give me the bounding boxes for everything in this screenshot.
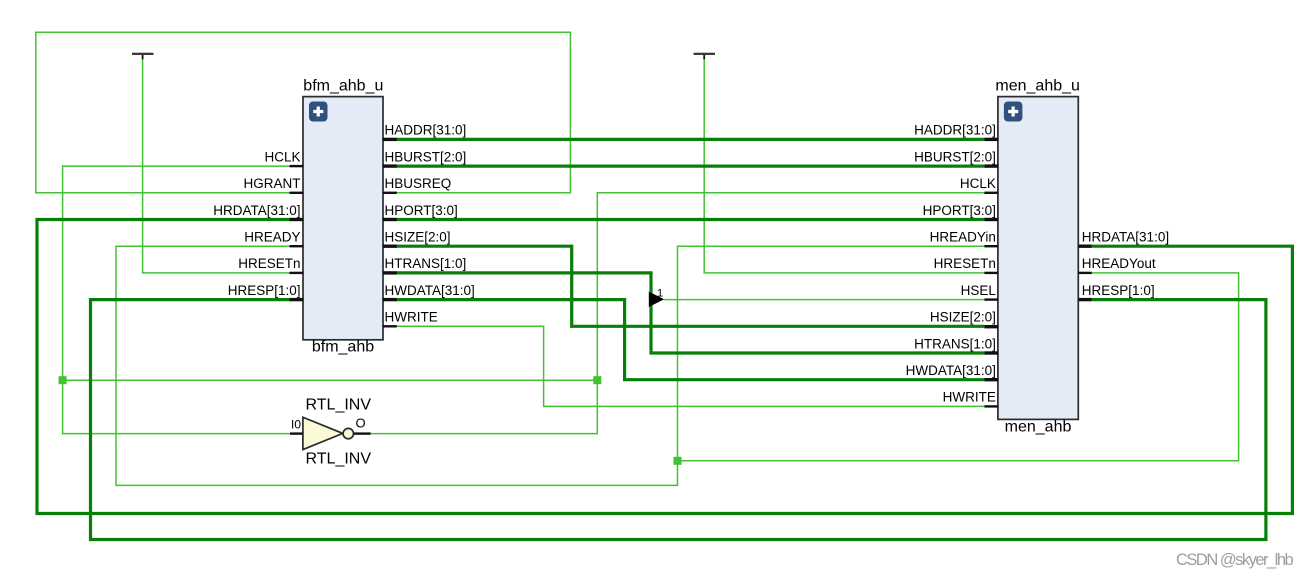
port terminal T1 stub bbox=[142, 55, 144, 59]
bus HRESP loop bbox=[91, 300, 1266, 540]
pin stub men HSIZE[2:0] bbox=[984, 325, 998, 328]
pin stub men HTRANS[1:0] bbox=[984, 351, 998, 354]
port terminal T2 stub bbox=[703, 55, 705, 59]
svg-text:HWDATA[31:0]: HWDATA[31:0] bbox=[906, 363, 996, 378]
wire inverter output to men HCLK bbox=[370, 193, 984, 434]
block bfm_ahb_u bbox=[303, 97, 383, 340]
wire HREADYout loop bbox=[678, 273, 1239, 461]
block men_ahb_u bbox=[998, 97, 1078, 420]
svg-text:HADDR[31:0]: HADDR[31:0] bbox=[914, 123, 996, 138]
pin stub bfm HTRANS[1:0] bbox=[383, 271, 397, 274]
pin stub inverter O bbox=[354, 432, 371, 434]
wire J1-J2 horizontal bbox=[63, 379, 598, 381]
svg-text:HREADYin: HREADYin bbox=[930, 230, 996, 245]
svg-text:HTRANS[1:0]: HTRANS[1:0] bbox=[385, 256, 467, 271]
pin stub bfm HRDATA[31:0] bbox=[290, 218, 304, 221]
bus HADDR bbox=[397, 138, 985, 141]
svg-text:HBUSREQ: HBUSREQ bbox=[385, 176, 452, 191]
svg-text:HSEL: HSEL bbox=[961, 283, 997, 298]
svg-text:HADDR[31:0]: HADDR[31:0] bbox=[385, 123, 467, 138]
svg-text:HBURST[2:0]: HBURST[2:0] bbox=[914, 149, 996, 164]
svg-text:HRESETn: HRESETn bbox=[934, 256, 996, 271]
expand icon men bbox=[1004, 102, 1023, 122]
bus HBURST bbox=[397, 165, 985, 168]
port terminal T1 bar bbox=[132, 53, 154, 55]
pin stub bfm HCLK bbox=[290, 165, 304, 167]
pin stub men HRESP[1:0] bbox=[1078, 298, 1092, 301]
pin stub men HBURST[2:0] bbox=[984, 164, 998, 167]
svg-text:HREADYout: HREADYout bbox=[1082, 256, 1156, 271]
const driver arrow for HSEL bbox=[649, 292, 664, 307]
pin stub men HREADYin bbox=[984, 245, 998, 247]
pin stub bfm HBUSREQ bbox=[383, 192, 397, 194]
pin stub bfm HWRITE bbox=[383, 325, 397, 327]
pin stub bfm HBURST[2:0] bbox=[383, 164, 397, 167]
bus HSIZE bbox=[397, 246, 985, 326]
svg-text:HWDATA[31:0]: HWDATA[31:0] bbox=[385, 283, 475, 298]
wire bfm HCLK to inverter input bbox=[63, 166, 291, 434]
svg-text:bfm_ahb: bfm_ahb bbox=[312, 338, 374, 355]
svg-text:HRESP[1:0]: HRESP[1:0] bbox=[1082, 283, 1155, 298]
inverter U1 RTL_INV triangle bbox=[303, 417, 343, 449]
wire HREADY net bbox=[116, 246, 984, 485]
svg-text:HWRITE: HWRITE bbox=[943, 390, 996, 405]
svg-text:HWRITE: HWRITE bbox=[385, 310, 438, 325]
pin stub bfm HREADY bbox=[290, 245, 304, 247]
svg-text:HRESETn: HRESETn bbox=[238, 256, 300, 271]
pin stub men HCLK bbox=[984, 192, 998, 194]
svg-text:HGRANT: HGRANT bbox=[244, 176, 301, 191]
bus HWDATA bbox=[397, 300, 985, 380]
pin stub men HADDR[31:0] bbox=[984, 138, 998, 141]
svg-text:HSIZE[2:0]: HSIZE[2:0] bbox=[385, 230, 451, 245]
pin stub men HRDATA[31:0] bbox=[1078, 245, 1092, 248]
wire HSEL from const 1 bbox=[664, 299, 984, 301]
pin stub men HWDATA[31:0] bbox=[984, 378, 998, 381]
svg-text:HPORT[3:0]: HPORT[3:0] bbox=[923, 203, 996, 218]
wire T1 to bfm HRESETn bbox=[143, 59, 290, 273]
svg-text:HBURST[2:0]: HBURST[2:0] bbox=[385, 149, 467, 164]
svg-text:1: 1 bbox=[657, 287, 663, 299]
pin stub bfm HADDR[31:0] bbox=[383, 138, 397, 141]
svg-text:HRDATA[31:0]: HRDATA[31:0] bbox=[213, 203, 300, 218]
svg-text:O: O bbox=[356, 416, 366, 431]
pin stub bfm HPORT[3:0] bbox=[383, 218, 397, 221]
svg-text:HRESP[1:0]: HRESP[1:0] bbox=[228, 283, 301, 298]
bus HRDATA loop bbox=[37, 220, 1292, 514]
svg-text:HREADY: HREADY bbox=[244, 230, 300, 245]
svg-text:HCLK: HCLK bbox=[264, 149, 300, 164]
bus HPORT bbox=[397, 218, 985, 221]
svg-text:RTL_INV: RTL_INV bbox=[306, 397, 372, 414]
pin stub men HPORT[3:0] bbox=[984, 218, 998, 221]
wire HWRITE bbox=[397, 326, 985, 406]
pin stub men HRESETn bbox=[984, 272, 998, 274]
wire HBUSREQ-HGRANT top loop bbox=[36, 32, 571, 193]
svg-text:RTL_INV: RTL_INV bbox=[306, 451, 372, 468]
svg-text:CSDN @skyer_lhb: CSDN @skyer_lhb bbox=[1176, 551, 1294, 569]
svg-text:men_ahb_u: men_ahb_u bbox=[995, 77, 1080, 94]
wire T2 to men HRESETn bbox=[704, 59, 984, 273]
svg-text:men_ahb: men_ahb bbox=[1005, 418, 1072, 435]
svg-text:HCLK: HCLK bbox=[960, 176, 996, 191]
pin stub bfm HWDATA[31:0] bbox=[383, 298, 397, 301]
bus HTRANS bbox=[397, 273, 985, 353]
junction J3 bbox=[674, 457, 682, 465]
pin stub bfm HRESP[1:0] bbox=[290, 298, 304, 301]
pin stub bfm HSIZE[2:0] bbox=[383, 245, 397, 248]
pin stub inverter I0 bbox=[290, 432, 303, 434]
svg-text:HTRANS[1:0]: HTRANS[1:0] bbox=[914, 336, 996, 351]
svg-text:HRDATA[31:0]: HRDATA[31:0] bbox=[1082, 230, 1169, 245]
svg-text:HPORT[3:0]: HPORT[3:0] bbox=[385, 203, 458, 218]
pin stub bfm HGRANT bbox=[290, 192, 304, 194]
svg-text:HSIZE[2:0]: HSIZE[2:0] bbox=[930, 310, 996, 325]
svg-text:I0: I0 bbox=[291, 418, 301, 432]
inverter U1 bubble bbox=[343, 428, 353, 438]
pin stub bfm HRESETn bbox=[290, 272, 304, 274]
pin stub men HWRITE bbox=[984, 405, 998, 407]
junction J2 bbox=[593, 376, 601, 384]
expand icon bfm bbox=[309, 102, 328, 122]
junction J1 bbox=[59, 376, 67, 384]
svg-text:bfm_ahb_u: bfm_ahb_u bbox=[303, 77, 383, 94]
port terminal T2 bar bbox=[694, 53, 716, 55]
pin stub men HREADYout bbox=[1078, 272, 1092, 274]
pin stub men HSEL bbox=[984, 298, 998, 300]
